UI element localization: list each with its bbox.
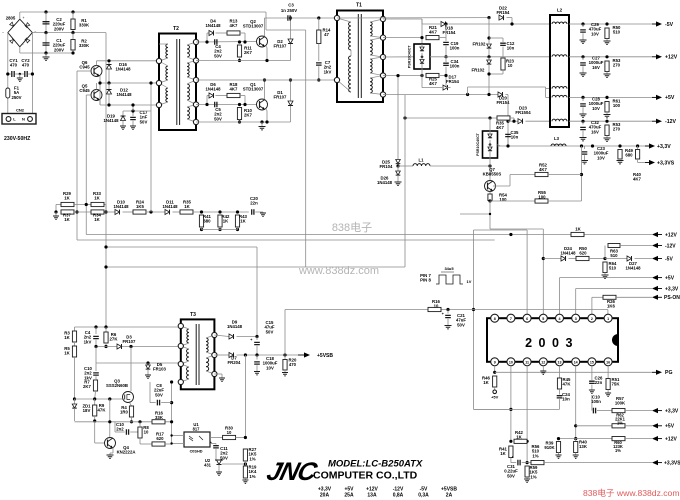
resistor R8 10 — [138, 420, 141, 423]
diode D3 FR107 — [117, 344, 122, 349]
capacitor C18 1000uF 10V — [256, 355, 258, 360]
wire -5V rail — [569, 23, 652, 25]
wire Q4 base feed — [94, 422, 96, 443]
diode D22 FR154 — [499, 15, 504, 20]
rectifier U3 PSR10C40CT — [414, 44, 430, 69]
diode FR102 upper — [488, 18, 490, 43]
capacitor C26 22n — [591, 366, 593, 380]
diode D9 1N4148 — [229, 334, 234, 339]
svg-text:R55100: R55100 — [538, 190, 546, 200]
node C12 top junction — [487, 36, 490, 39]
capacitor C10 2n2 1kV — [95, 363, 97, 371]
svg-text:R61100: R61100 — [613, 99, 621, 109]
svg-text:R112K7: R112K7 — [244, 46, 252, 56]
resistor R42a 1K — [218, 210, 221, 213]
svg-text:CN2: CN2 — [16, 108, 25, 113]
node D22 junction — [487, 16, 490, 19]
terminal +3.3V output — [645, 145, 650, 147]
resistor R21 4K7 — [426, 36, 439, 40]
wire emitter row y60.5 — [196, 60, 291, 62]
svg-text:+3,3V: +3,3V — [665, 286, 679, 292]
resistor R51 75K — [607, 366, 609, 379]
svg-text:R50510: R50510 — [613, 25, 621, 35]
capacitor C4 2n2 50V — [215, 39, 217, 45]
terminal +5VSB output — [298, 354, 305, 356]
diode D7 FR204 — [229, 352, 234, 357]
ground C17 — [130, 126, 136, 129]
resistor R41b 1K — [509, 446, 513, 458]
resistor R1 330K — [72, 12, 74, 33]
wire +5VSB to supply row — [284, 310, 286, 356]
wire bypass right leg lower — [244, 96, 246, 105]
wire PSR2 bottom pin — [489, 158, 491, 166]
T2 pins right — [193, 39, 198, 44]
IC 2003 bottom pins — [491, 358, 499, 366]
transistor Q6 C945 — [91, 66, 102, 77]
wire U1 left stubs — [172, 435, 184, 437]
optocoupler U1 817 — [184, 432, 210, 447]
resistor R25 4K7 — [426, 73, 439, 77]
wire Q1 base row — [196, 104, 257, 106]
svg-text:-5V: -5V — [665, 22, 674, 28]
wire sense vertical x581.5 — [581, 146, 583, 201]
wire — [19, 12, 21, 19]
wire C4b column down — [95, 347, 97, 364]
resistor R23 10 — [501, 58, 505, 70]
wire +5V sense row — [560, 277, 653, 279]
wire lower row — [104, 211, 115, 213]
svg-text:R4013K: R4013K — [579, 440, 588, 450]
svg-text:5: 5 — [542, 317, 544, 321]
transformer T1 — [337, 11, 383, 103]
wire row y83 — [100, 82, 159, 84]
wire Q5 collector — [96, 83, 98, 90]
svg-text:R5175K: R5175K — [612, 377, 621, 387]
svg-text:16: 16 — [606, 360, 610, 364]
fuse F1 5A 250V — [6, 88, 10, 98]
svg-text:R404K7: R404K7 — [633, 172, 641, 182]
wire row y421.8 — [75, 421, 172, 423]
capacitor C2 220uF 200V — [45, 12, 47, 33]
resistor R49 680 — [618, 150, 622, 160]
transistor Q5 C945 — [91, 90, 102, 101]
resistor R61 100 — [605, 102, 609, 113]
resistor R45 47K — [559, 366, 561, 378]
wire R3 column top — [74, 327, 76, 331]
node -5V sense junction — [603, 257, 606, 260]
resistor R39 910K — [556, 442, 560, 453]
resistor R62 22K1 1% — [576, 425, 612, 427]
svg-text:JNC: JNC — [264, 458, 320, 486]
logo JNC — [264, 458, 320, 486]
ground D26 — [395, 182, 402, 185]
wire Q1 collector — [264, 80, 266, 99]
capacitor C3 1n 250V — [265, 17, 338, 19]
wire row y267 — [106, 266, 306, 268]
wire D18 branch — [421, 19, 423, 24]
wire Q5 emitter — [99, 100, 101, 105]
shunt reg U2 431 — [216, 459, 219, 461]
capacitor C20 22n — [252, 209, 254, 215]
node C7 bottom junction — [317, 78, 320, 81]
ground CY midpoint — [15, 73, 24, 75]
capacitor C21 47uF 50V — [447, 310, 449, 314]
wire Q4 emitter — [112, 448, 114, 454]
svg-text:C112n250V: C112n250V — [220, 446, 228, 460]
resistor R37 1K — [61, 210, 74, 214]
terminal +12V sense — [652, 232, 658, 237]
svg-text:R51K: R51K — [64, 346, 70, 356]
capacitor C5 2n2 50V — [215, 102, 217, 108]
svg-text:2A: 2A — [446, 493, 453, 499]
svg-text:PS-ON: PS-ON — [664, 295, 680, 301]
wire bus y240 — [77, 239, 495, 241]
mosfet Q3 SSS2N60B — [123, 392, 134, 403]
wire T3 bottom pin to ground — [214, 373, 222, 375]
resistor R54 100 — [489, 192, 491, 195]
wire Q3 source — [130, 403, 132, 407]
svg-text:R261K6: R261K6 — [607, 299, 615, 309]
svg-text:R49680: R49680 — [625, 148, 633, 158]
resistor R5 1K — [74, 342, 76, 346]
resistor R20 470 — [284, 355, 286, 360]
svg-text:838电子: 838电子 — [332, 221, 372, 234]
svg-text:C171nF50V: C171nF50V — [140, 110, 148, 124]
capacitor C34 100n — [445, 57, 447, 62]
terminal +12V fb — [652, 436, 658, 441]
resistor R7 2K7 — [93, 380, 97, 391]
capacitor CY1 470 — [12, 71, 14, 77]
T1 pins left — [334, 15, 339, 20]
resistor R29 1K — [56, 204, 61, 206]
wire PG row — [494, 366, 496, 373]
diode D19 1N4148 — [122, 111, 124, 116]
wire row y363 — [96, 362, 180, 364]
capacitor C1 220uF 200V — [45, 33, 47, 53]
wire +3.3V sense row — [576, 288, 652, 290]
ground D5 — [145, 375, 151, 378]
capacitor C17 1nF 50V — [132, 111, 134, 116]
ground primary — [45, 53, 47, 57]
resistor R55 100 — [535, 199, 548, 203]
diode D4 1N4148 — [206, 33, 208, 42]
svg-text:FR102: FR102 — [472, 68, 486, 73]
wire Q4 collector column — [109, 399, 111, 437]
svg-text:CY1470: CY1470 — [9, 58, 18, 68]
wire upper to lower drop — [105, 205, 107, 213]
svg-text:PSR10C40CT: PSR10C40CT — [476, 132, 480, 156]
wire R55 row y201 — [490, 200, 535, 202]
svg-text:R184K7: R184K7 — [230, 82, 238, 92]
wire bus y234.5 — [86, 234, 652, 236]
svg-text:1V: 1V — [467, 279, 472, 284]
wire pin5 vertical — [542, 229, 544, 318]
svg-text:2: 2 — [591, 317, 593, 321]
svg-text:R524K7: R524K7 — [539, 163, 547, 173]
svg-text:L2: L2 — [557, 8, 563, 13]
resistor R24 1K5 — [133, 210, 146, 214]
svg-text:2805: 2805 — [6, 16, 16, 21]
node D5 junction — [146, 361, 149, 364]
svg-text:-12V: -12V — [665, 243, 676, 249]
diode D6 1N4148 — [206, 96, 208, 105]
svg-text:0,8A: 0,8A — [393, 493, 404, 499]
wire Q6 base — [77, 70, 92, 72]
wire T1 pin19 to rect column — [383, 18, 422, 20]
svg-text:ZD118V: ZD118V — [82, 404, 91, 414]
wire row y327 — [75, 326, 181, 328]
svg-text:COMPUTER CO.,LTD: COMPUTER CO.,LTD — [313, 470, 418, 482]
terminal -12V output — [652, 120, 657, 122]
svg-text:PIN 7PIN 8: PIN 7PIN 8 — [420, 273, 431, 283]
wire Q2 base row — [196, 41, 257, 44]
svg-text:R53270: R53270 — [613, 58, 621, 68]
transistor Q2 STD13007 — [257, 36, 268, 47]
wire L1 input vertical x398 — [397, 76, 399, 160]
svg-text:+3,3V: +3,3V — [665, 408, 679, 414]
svg-text:PSR10C40CT: PSR10C40CT — [408, 45, 412, 69]
rectifier U4 PSR10C40CT second — [483, 131, 498, 158]
terminal +3.3V fb — [652, 408, 658, 413]
resistor 1K on +12V sense — [571, 232, 584, 236]
ground pin12 — [540, 371, 546, 374]
wire pin11 column — [526, 366, 528, 463]
resistor R30 10 — [210, 437, 223, 439]
wire vertical x473.5 — [473, 230, 475, 409]
resistor R40b 13K — [575, 439, 577, 442]
resistor R11 2K7 — [238, 40, 241, 43]
wire Q7 base — [493, 185, 510, 187]
svg-text:T2: T2 — [173, 26, 179, 32]
svg-text:R53270: R53270 — [613, 122, 621, 132]
svg-text:+12V: +12V — [665, 436, 677, 442]
T3 primary winding — [187, 329, 189, 343]
node bottom rail junctions — [44, 51, 47, 54]
wire PS-ON row — [592, 296, 603, 298]
svg-text:C102n21kV: C102n21kV — [84, 366, 92, 380]
svg-text:CY2470: CY2470 — [21, 58, 30, 68]
terminal +5V fb — [652, 423, 658, 428]
node C21 junction — [446, 308, 449, 311]
svg-text:R214K7: R214K7 — [429, 25, 437, 35]
diode D11 1N4148 — [165, 209, 170, 214]
wire U2 ref — [222, 463, 245, 465]
ground C20 — [262, 212, 264, 213]
terminal -5V sense — [652, 256, 658, 261]
svg-text:C3510n: C3510n — [511, 130, 519, 140]
svg-text:R63510: R63510 — [610, 249, 618, 259]
wire pin12 ground — [542, 366, 544, 371]
wire vertical x151 upper — [150, 83, 152, 111]
wire Q5 base — [86, 94, 92, 96]
svg-text:20A: 20A — [320, 493, 330, 499]
resistor R13 4K7 — [216, 32, 228, 34]
wire pin14 column — [575, 366, 577, 439]
resistor R3 1K — [72, 331, 76, 342]
svg-text:C2147uF50V: C2147uF50V — [456, 313, 466, 327]
svg-text:C34100n: C34100n — [450, 59, 460, 69]
svg-text:R31K: R31K — [64, 331, 70, 341]
resistor R6 27K — [105, 327, 107, 332]
svg-text:+5V: +5V — [665, 95, 675, 101]
node Q3 drain junction — [129, 345, 132, 348]
wire T1 pin37 to R21 row — [383, 37, 422, 39]
wire R5 down to gate row — [74, 357, 76, 399]
resistor R9 47K — [94, 399, 96, 405]
capacitor C27 1000uF 16V — [582, 57, 584, 60]
svg-text:C2622n: C2622n — [595, 376, 603, 386]
wire R8 bottom row — [139, 438, 141, 444]
svg-text:+12V: +12V — [665, 232, 677, 238]
svg-text:C19100n: C19100n — [450, 41, 460, 51]
capacitor C29 470uF 10V — [582, 24, 584, 27]
wire AC line N — [31, 33, 33, 114]
wire — [19, 47, 21, 53]
wire bypass right leg — [244, 33, 246, 42]
resistor R16 10 — [428, 307, 441, 311]
ground Q1 emitter — [261, 122, 263, 127]
node L1 tee — [396, 164, 399, 167]
node FR102 mid — [488, 48, 490, 57]
diode D23 FR1504 — [506, 120, 509, 123]
wire +12V row from PSR1 — [430, 56, 550, 58]
wire Q6 base vertical to bus — [76, 71, 78, 240]
svg-text:12: 12 — [541, 360, 545, 364]
wire bus y247 — [106, 246, 257, 248]
diode D18 FR154 — [422, 23, 440, 25]
resistor R57 100K — [612, 409, 625, 413]
IC U5 2003 — [487, 318, 618, 362]
wire +12V rail — [569, 56, 652, 58]
T2 pins left — [156, 58, 161, 63]
svg-text:FR102: FR102 — [473, 42, 487, 47]
wire vertical x405 — [404, 95, 406, 267]
node L3 out junctions — [580, 144, 583, 147]
resistor R63 510 — [604, 246, 606, 259]
svg-text:15: 15 — [590, 360, 594, 364]
svg-text:C2410n: C2410n — [562, 392, 570, 402]
capacitor C7 2n2 1kV — [318, 44, 320, 62]
node CY junctions — [6, 72, 9, 75]
capacitor C31 0.22uF 50V — [510, 458, 512, 463]
diode D5 FR103 — [147, 363, 149, 365]
bridge rectifier 2805 — [8, 19, 33, 47]
svg-text:8: 8 — [494, 317, 496, 321]
diode D12 1N4148 — [108, 83, 110, 105]
capacitor C8 22uF 50V — [149, 382, 151, 403]
wire upper row — [74, 204, 106, 206]
svg-text:L1: L1 — [419, 158, 425, 163]
wire feedback column x245 — [244, 355, 246, 438]
resistor R16b 33K — [152, 420, 165, 424]
svg-text:1n 250V: 1n 250V — [281, 8, 297, 13]
capacitor CY2 470 — [25, 71, 27, 77]
capacitor C35 10n — [505, 134, 511, 136]
svg-text:7: 7 — [510, 317, 512, 321]
wire Q3 drain — [130, 347, 132, 392]
svg-text:C10100n: C10100n — [591, 395, 601, 405]
resistor R34 1K — [74, 211, 91, 213]
capacitor C23 1000uF 10V — [584, 146, 586, 149]
svg-text:L3: L3 — [554, 136, 560, 141]
resistor R4 1R0 — [129, 406, 133, 417]
terminal +5V sense — [652, 275, 658, 280]
svg-text:+3,3V: +3,3V — [657, 144, 671, 150]
svg-text:34u5: 34u5 — [444, 266, 454, 271]
wire sense stub — [460, 213, 490, 215]
svg-text:R50620: R50620 — [579, 246, 587, 256]
wire Q6 emitter — [99, 76, 101, 83]
svg-text:C0SHD: C0SHD — [190, 450, 203, 454]
wire node left x56 — [55, 205, 57, 213]
capacitor C28 1000uF 10V — [582, 97, 584, 101]
inductor L3 — [551, 144, 566, 146]
svg-text:-12V: -12V — [665, 119, 676, 125]
node main positive bus junctions — [44, 10, 47, 13]
terminal +5V stub — [493, 390, 497, 394]
ground D19 — [120, 126, 126, 129]
ground R19 — [244, 478, 246, 480]
capacitor C15 47uF 50V — [256, 337, 258, 341]
capacitor C11 2n2 50V — [210, 443, 216, 445]
terminal -12V sense — [652, 243, 658, 248]
svg-text:6: 6 — [526, 317, 528, 321]
resistor R64 510 — [603, 262, 607, 273]
wire D20 down column — [507, 95, 509, 147]
wire +3.3V row y146 — [498, 145, 653, 147]
wire AC line L — [7, 33, 9, 114]
diode D17 FR154 — [422, 87, 442, 89]
resistor R50 510 — [605, 28, 609, 39]
wire Q2 collector — [264, 18, 266, 36]
svg-text:R4547K: R4547K — [563, 377, 572, 387]
IC 2003 top pins — [491, 314, 499, 322]
node midpoint junctions — [44, 31, 47, 34]
svg-text:PG: PG — [665, 370, 673, 376]
node pin7 bus junction — [509, 233, 512, 236]
diode D26 1N4148 — [397, 166, 399, 171]
resistor R17 620 — [152, 442, 165, 446]
T2 primary winding — [166, 44, 168, 58]
wire T1 pin94 output row — [383, 94, 500, 96]
wire R16 feed corner — [474, 408, 511, 410]
resistor R41 680 — [200, 210, 203, 213]
diode D1 FR107 — [290, 80, 292, 122]
terminal +3.3VS output — [645, 162, 650, 164]
svg-text:-5V: -5V — [665, 256, 673, 262]
svg-text:10: 10 — [509, 360, 513, 364]
svg-text:R1633K: R1633K — [155, 411, 164, 421]
ground divider — [55, 212, 57, 216]
wire emitter row y122 — [196, 121, 291, 123]
terminal -5V output — [652, 23, 657, 25]
wire PSR2 top pin — [489, 118, 491, 131]
wire standby vertical x257 — [256, 247, 258, 335]
wire long vertical x106 — [105, 33, 107, 327]
resistor R35 4K7 — [497, 116, 510, 120]
svg-text:N: N — [22, 117, 25, 122]
svg-text:R241K5: R241K5 — [136, 200, 144, 210]
wire R35 row y118 — [405, 117, 497, 119]
resistor R46 1K — [493, 376, 497, 387]
node 5VSB junctions — [244, 353, 247, 356]
svg-text:2003: 2003 — [525, 336, 579, 350]
wire +5V rail — [569, 96, 652, 98]
svg-text:+3,3VS: +3,3VS — [657, 160, 675, 166]
wire output mid row y80 — [196, 79, 338, 81]
node snubber mid — [444, 55, 447, 58]
T3 pins left — [178, 323, 183, 328]
